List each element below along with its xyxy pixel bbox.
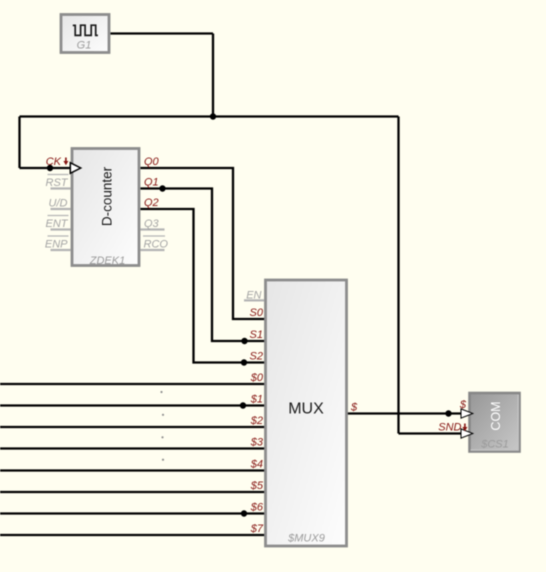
svg-text:Q0: Q0 [144, 156, 160, 168]
svg-text:COM: COM [489, 401, 503, 430]
pin label $2 [250, 415, 263, 427]
wire input $1 [0, 404, 265, 406]
svg-text:$0: $0 [250, 372, 264, 384]
svg-text:Q2: Q2 [144, 197, 159, 209]
wire input $5 [0, 491, 265, 493]
svg-text:$MUX9: $MUX9 [287, 533, 325, 545]
pin label ENT [46, 216, 69, 231]
junction on $ wire [445, 410, 451, 416]
svg-text:EN: EN [246, 289, 261, 301]
wire input $4 [0, 469, 265, 471]
junction at main net [210, 113, 216, 119]
generator G1 box [61, 15, 109, 53]
svg-text:D-counter: D-counter [100, 166, 115, 226]
pin label S0 [250, 307, 264, 319]
wire vertical from G1 down to main net [212, 34, 214, 117]
wire G1 output to corner [111, 32, 214, 34]
wire right vertical to SND [397, 117, 399, 434]
pin label Q2 [144, 197, 159, 209]
wire main horizontal net CK distribution [20, 115, 399, 117]
svg-text:$2: $2 [250, 415, 263, 427]
wire MUX $ output to COM $ input [347, 412, 462, 414]
pin label SND [438, 422, 467, 434]
com port COM body text [489, 401, 503, 430]
pin label $4 [250, 459, 263, 471]
svg-text:$CS1: $CS1 [480, 439, 509, 451]
pin label RST [46, 175, 69, 190]
generator G1 label [77, 40, 92, 52]
pin EN stub [244, 299, 264, 301]
pin label Q0 [144, 156, 160, 168]
pin RCO stub [141, 249, 165, 251]
wire input $0 [0, 383, 265, 385]
junction on $6 [241, 510, 247, 516]
counter ZDEK1 box [72, 149, 139, 266]
svg-text:ZDEK1: ZDEK1 [89, 255, 125, 267]
input arrow SND pin [461, 429, 473, 438]
svg-text:S2: S2 [250, 351, 263, 363]
pin RST stub [51, 187, 71, 189]
pin label $1 [250, 394, 263, 406]
pin label $3 [250, 437, 264, 449]
svg-text:SND: SND [438, 422, 461, 434]
wire input $7 [0, 534, 265, 536]
svg-text:CK: CK [46, 156, 62, 168]
pin label S2 [250, 351, 263, 363]
pin label $ at COM [459, 399, 467, 411]
wire input $3 [0, 447, 265, 449]
pin label RCO [143, 236, 168, 251]
pin label CK [46, 156, 69, 168]
svg-text:G1: G1 [77, 40, 92, 52]
multiplexer $MUX9 box [266, 280, 347, 546]
input arrow $ pin [461, 409, 473, 418]
pin label EN [246, 289, 261, 301]
svg-text:S1: S1 [250, 329, 263, 341]
grid mark dots [160, 391, 164, 461]
svg-text:$4: $4 [250, 459, 263, 471]
svg-text:ENP: ENP [45, 239, 68, 251]
svg-text:$6: $6 [250, 502, 264, 514]
svg-text:RCO: RCO [144, 239, 169, 251]
pin Q3 stub [141, 228, 165, 230]
pin label ENP [45, 236, 69, 251]
svg-text:Q1: Q1 [144, 177, 159, 189]
svg-text:RST: RST [46, 177, 69, 189]
svg-text:$3: $3 [250, 437, 264, 449]
pin label U/D [49, 198, 68, 210]
multiplexer name label [287, 533, 325, 545]
svg-text:MUX: MUX [288, 401, 324, 418]
svg-text:$1: $1 [250, 394, 263, 406]
junction on S1 stub [241, 338, 247, 344]
wire into SND pin [399, 432, 463, 434]
clock edge triangle on CK pin [70, 163, 80, 174]
svg-text:$: $ [350, 402, 358, 414]
com port name label [480, 439, 509, 451]
pin label Q3 [144, 218, 160, 230]
pin label S1 [250, 329, 263, 341]
com port $CS1 box [470, 393, 520, 452]
wire Q2 to S2 [141, 209, 266, 363]
pin label $5 [250, 480, 264, 492]
wire left vertical down to CK [18, 117, 20, 169]
wire Q0 to S0 [141, 168, 266, 319]
counter ZDEK1 body text [100, 166, 115, 226]
svg-text:U/D: U/D [49, 198, 68, 210]
junction on CK wire [47, 165, 53, 171]
junction on $1 [240, 402, 246, 408]
pin label $ output [350, 402, 358, 414]
wire input $2 [0, 426, 265, 428]
counter ZDEK1 name label [89, 255, 125, 267]
multiplexer MUX body text [288, 401, 324, 418]
pin label $6 [250, 502, 264, 514]
wire input $6 [0, 512, 265, 514]
pin label Q1 [144, 177, 159, 189]
svg-text:Q3: Q3 [144, 218, 160, 230]
svg-text:ENT: ENT [46, 218, 69, 230]
svg-text:$: $ [459, 399, 467, 411]
pin ENT stub [51, 228, 71, 230]
wire Q1 to S1 [141, 189, 266, 342]
svg-text:$7: $7 [250, 523, 264, 535]
junction on Q1 wire [159, 185, 165, 191]
pin U/D stub [51, 208, 71, 210]
pin label $7 [250, 523, 264, 535]
pin ENP stub [51, 249, 71, 251]
generator G1 square wave symbol [73, 25, 98, 35]
svg-text:$5: $5 [250, 480, 264, 492]
junction on S2 stub [241, 359, 247, 365]
pin label $0 [250, 372, 264, 384]
wire into CK pin [20, 167, 72, 169]
svg-text:S0: S0 [250, 307, 264, 319]
